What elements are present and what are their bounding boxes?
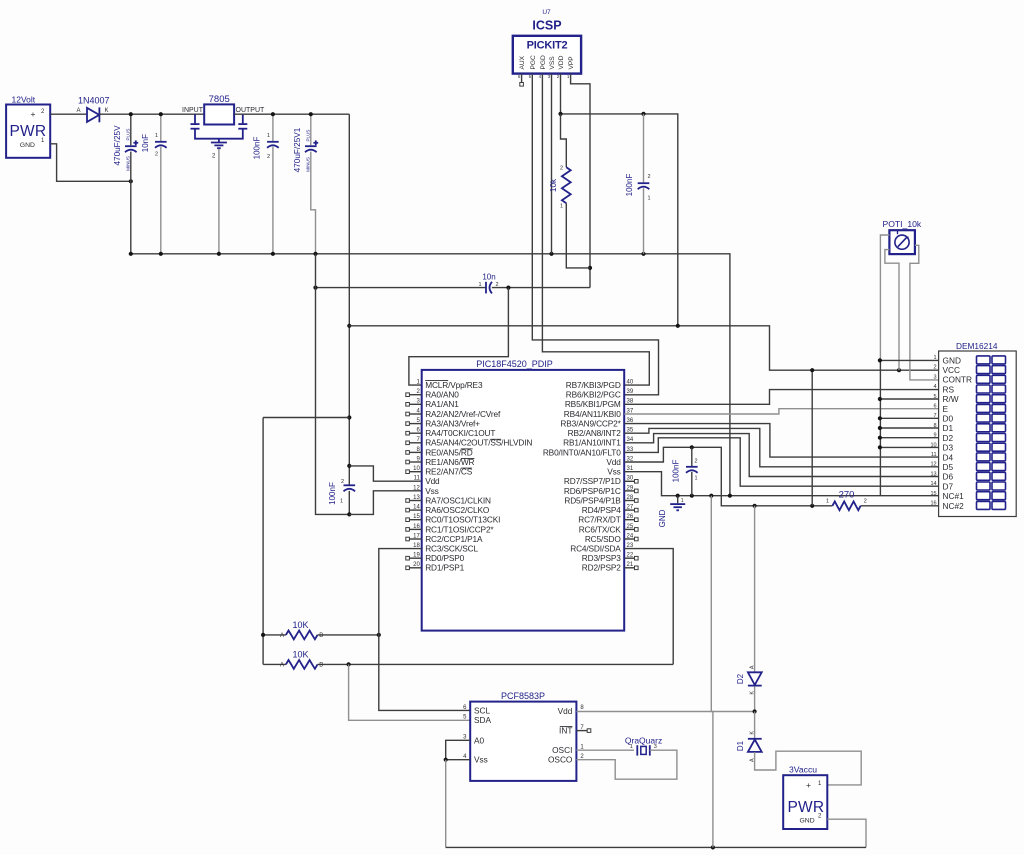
overline WR pin9 (461, 458, 475, 460)
svg-text:A: A (77, 108, 81, 114)
wire LCD D0 stub (880, 417, 939, 419)
svg-text:RD4/PSP4: RD4/PSP4 (582, 505, 621, 515)
svg-text:D2: D2 (943, 433, 954, 443)
PCF INT stub (576, 730, 587, 732)
junction C6 / Vss vertical (313, 286, 317, 290)
overline MCLR (425, 380, 448, 382)
svg-text:100nF: 100nF (625, 174, 634, 197)
svg-text:1: 1 (826, 499, 829, 505)
svg-text:NC#1: NC#1 (943, 491, 965, 501)
svg-text:2: 2 (496, 282, 499, 288)
svg-text:RB5/KBI1/PGM: RB5/KBI1/PGM (565, 399, 621, 409)
svg-text:B: B (319, 662, 323, 668)
wire PCF A0 (446, 740, 471, 759)
svg-text:2: 2 (155, 152, 158, 158)
svg-text:Vss: Vss (474, 755, 488, 765)
ground symbol under 7805 (211, 142, 227, 144)
svg-text:RD1/PSP1: RD1/PSP1 (425, 563, 464, 573)
svg-text:OSCI: OSCI (552, 745, 572, 755)
svg-text:+: + (31, 109, 36, 119)
wire RB5 to LCD RS (624, 390, 938, 405)
svg-text:RS: RS (943, 384, 955, 394)
junction C3 top (271, 112, 275, 116)
wire Vdd branch to pull-ups (263, 417, 349, 419)
resistor R 10K (SCL pull-up) (263, 634, 286, 636)
svg-text:VCC: VCC (943, 365, 961, 375)
svg-text:GND: GND (658, 509, 667, 527)
capacitor C6 10n (485, 282, 487, 294)
wire diode K to 7805 input (99, 113, 204, 115)
wire Vss vertical (316, 254, 350, 515)
svg-text:1: 1 (155, 133, 158, 139)
svg-text:1N4007: 1N4007 (78, 96, 110, 106)
microcontroller U PIC18F4520_PDIP (422, 370, 625, 631)
svg-text:PICKIT2: PICKIT2 (527, 40, 568, 52)
svg-text:RD7/SSP7/P1D: RD7/SSP7/P1D (564, 476, 621, 486)
svg-text:VDD: VDD (558, 55, 565, 69)
svg-text:RC3/SCK/SCL: RC3/SCK/SCL (425, 544, 478, 554)
wire RB4 to LCD E (624, 409, 938, 414)
capacitor C1 470uF/25V (130, 114, 132, 145)
svg-text:MINUS: MINUS (306, 157, 311, 172)
resistor R 10k pull-up (561, 114, 567, 167)
wire Vdd to PIC pin11 (349, 466, 421, 481)
junction C5 gnd (641, 252, 645, 256)
wire SCL from PIC pin18 (379, 549, 470, 711)
junction ICSP VSS (549, 252, 553, 256)
junction C4 top (309, 112, 313, 116)
svg-text:PGC: PGC (530, 55, 537, 70)
junction SDA drop (347, 662, 351, 666)
svg-text:SDA: SDA (474, 715, 492, 725)
svg-text:1: 1 (478, 282, 481, 288)
ICSP pin 6 AUX stub (521, 74, 523, 83)
wire LCD GND stub (880, 359, 939, 361)
svg-text:RB1/AN10/INT1: RB1/AN10/INT1 (563, 438, 621, 448)
wire ICSP VSS to ground rail (551, 74, 553, 254)
overline CS pin10 (461, 467, 472, 469)
svg-text:SCL: SCL (474, 705, 491, 715)
svg-text:270: 270 (839, 490, 855, 501)
svg-text:10n: 10n (482, 273, 495, 282)
svg-text:2: 2 (695, 459, 698, 465)
svg-text:GND: GND (800, 818, 815, 825)
svg-text:RA0/AN0: RA0/AN0 (425, 390, 459, 400)
svg-text:12Volt: 12Volt (12, 95, 36, 105)
svg-text:Vss: Vss (425, 486, 438, 496)
svg-text:1: 1 (695, 476, 698, 482)
svg-text:D1: D1 (736, 740, 745, 751)
svg-text:100nF: 100nF (672, 460, 681, 483)
svg-text:RA1/AN1: RA1/AN1 (425, 399, 459, 409)
svg-text:RB0/INT0/AN10/FLT0: RB0/INT0/AN10/FLT0 (543, 447, 621, 457)
svg-text:13: 13 (930, 471, 936, 477)
junction C2 top (159, 112, 163, 116)
capacitor C7 100nF at PIC (344, 484, 356, 486)
wire LCD R/W stub (880, 398, 939, 400)
power connector PWR 12Volt (6, 105, 50, 158)
svg-text:1: 1 (630, 744, 633, 750)
wire Vdd vertical (348, 114, 350, 484)
wire +5V to PIC area (561, 114, 678, 326)
svg-text:PIC18F4520_PDIP: PIC18F4520_PDIP (476, 359, 553, 369)
wire PCF Vdd (576, 711, 754, 713)
svg-text:10K: 10K (292, 650, 308, 660)
svg-text:RD6/PSP6/P1C: RD6/PSP6/P1C (564, 486, 621, 496)
svg-text:4: 4 (934, 384, 937, 390)
svg-text:INPUT: INPUT (182, 107, 204, 114)
svg-text:CONTR: CONTR (943, 375, 973, 385)
svg-text:DEM16214: DEM16214 (956, 341, 998, 351)
ground rail (131, 254, 730, 496)
svg-text:RA3/AN3/Vref+: RA3/AN3/Vref+ (425, 419, 480, 429)
svg-text:Vdd: Vdd (606, 457, 621, 467)
diode D1 (754, 712, 756, 739)
wire ICSP PGD (542, 74, 649, 386)
capacitor C8 100nF right of PIC (691, 447, 693, 466)
wire PIC Vdd pin32 (624, 447, 832, 506)
wire pot pin3 to LCD CONTR (910, 245, 939, 380)
svg-text:A: A (280, 633, 284, 639)
capacitor C5 100nF (643, 114, 645, 182)
wire battery GND to bottom rail (827, 819, 866, 847)
svg-text:15: 15 (930, 491, 936, 497)
7805 output pin bracket (242, 114, 244, 123)
svg-text:U7: U7 (542, 9, 551, 16)
svg-text:RA2/AN2/Vref-/CVref: RA2/AN2/Vref-/CVref (425, 409, 501, 419)
junction C1 top (129, 112, 133, 116)
wire pot wiper to LCD VCC (885, 250, 899, 371)
wire A0/Vss to bottom rail (445, 760, 447, 848)
svg-text:16: 16 (930, 501, 936, 507)
svg-text:1: 1 (267, 133, 270, 139)
capacitor C4 470uF/25V1 (310, 114, 312, 145)
svg-text:2: 2 (267, 154, 270, 160)
svg-text:470uF/25V1: 470uF/25V1 (293, 127, 302, 172)
svg-text:RD2/PSP2: RD2/PSP2 (582, 563, 621, 573)
svg-text:GND: GND (943, 355, 961, 365)
wire MCLR net (316, 287, 487, 289)
overline RD pin8 (461, 448, 473, 450)
wire Vss to PIC pin12 (349, 491, 421, 515)
bottom ground rail (446, 846, 866, 848)
svg-text:RD5/PSP4/P1B: RD5/PSP4/P1B (564, 495, 621, 505)
svg-text:D6: D6 (943, 472, 954, 482)
wire LCD gnd chain (879, 360, 881, 495)
wire VCC link vertical (811, 370, 813, 506)
svg-text:3: 3 (934, 374, 937, 380)
svg-text:D0: D0 (943, 414, 954, 424)
svg-text:RC4/SDI/SDA: RC4/SDI/SDA (570, 544, 621, 554)
svg-text:3: 3 (654, 744, 657, 750)
svg-text:+: + (806, 780, 811, 790)
svg-text:PCF8583P: PCF8583P (501, 691, 545, 701)
wire +5V output rail (234, 113, 349, 115)
7805 gnd pin path (191, 128, 200, 130)
svg-text:RD0/PSP0: RD0/PSP0 (425, 553, 464, 563)
svg-text:2: 2 (864, 499, 867, 505)
svg-text:A: A (280, 662, 284, 668)
wire RB0 to LCD D7 (624, 438, 938, 486)
svg-text:RB7/KBI3/PGD: RB7/KBI3/PGD (566, 380, 621, 390)
svg-text:1: 1 (648, 196, 651, 202)
svg-text:11: 11 (414, 476, 421, 482)
svg-text:D2: D2 (736, 673, 745, 684)
wire RB1 to LCD D6 (624, 434, 938, 477)
wire 7805 gnd down (218, 149, 220, 254)
resistor R 270 (832, 501, 860, 510)
svg-text:RC5/SDO: RC5/SDO (585, 534, 622, 544)
svg-text:PLUS: PLUS (126, 128, 131, 140)
svg-text:B: B (319, 633, 323, 639)
svg-text:RC6/TX/CK: RC6/TX/CK (579, 524, 622, 534)
svg-text:K: K (105, 108, 109, 114)
wire RB3 to LCD D4 (624, 424, 938, 458)
svg-text:GND: GND (20, 142, 35, 149)
7805 input pin bracket (194, 114, 196, 123)
junction VPP / R 10k (588, 266, 592, 270)
svg-text:10nF: 10nF (141, 134, 150, 152)
svg-text:3Vaccu: 3Vaccu (789, 764, 817, 774)
svg-text:MCLR/Vpp/RE3: MCLR/Vpp/RE3 (425, 380, 483, 390)
svg-text:2: 2 (648, 174, 651, 180)
svg-text:12: 12 (413, 485, 420, 491)
svg-text:2: 2 (934, 365, 937, 371)
svg-text:1: 1 (340, 499, 343, 505)
overline SS pin7 (490, 438, 501, 440)
junction PCF Vdd / diodes (753, 709, 757, 713)
svg-text:A: A (750, 665, 756, 669)
svg-text:D4: D4 (943, 452, 954, 462)
resistor R 10K (SDA pull-up) (263, 663, 286, 665)
svg-text:D1: D1 (943, 423, 954, 433)
svg-text:11: 11 (931, 452, 937, 458)
svg-text:POTI_10k: POTI_10k (883, 219, 922, 229)
svg-text:RB6/KBI2/PGC: RB6/KBI2/PGC (566, 390, 621, 400)
svg-text:1: 1 (560, 204, 563, 210)
svg-text:D7: D7 (943, 481, 954, 491)
svg-text:RC1/T1OSI/CCP2*: RC1/T1OSI/CCP2* (425, 524, 494, 534)
svg-text:INT: INT (559, 726, 572, 736)
svg-text:RB3/AN9/CCP2*: RB3/AN9/CCP2* (560, 419, 621, 429)
junction MCLR drop (506, 286, 510, 290)
wire ground vertical mid (710, 496, 712, 712)
svg-text:100nF: 100nF (328, 482, 337, 505)
svg-text:RC2/CCP1/P1A: RC2/CCP1/P1A (425, 534, 483, 544)
junction GND pin / C1 (129, 179, 133, 183)
svg-text:RA7/OSC1/CLKIN: RA7/OSC1/CLKIN (425, 495, 491, 505)
svg-text:OUTPUT: OUTPUT (236, 107, 266, 114)
wire LCD D2 stub (880, 437, 939, 439)
wire SDA from PIC pin23 (624, 549, 673, 665)
svg-text:OSCO: OSCO (548, 755, 573, 765)
ground symbol GND at PIC (677, 496, 679, 504)
svg-text:MINUS: MINUS (126, 156, 131, 171)
wire Vdd distribution to LCD VCC (349, 326, 938, 370)
svg-text:12: 12 (930, 462, 936, 468)
LCD pixel cells (977, 356, 991, 364)
svg-text:40: 40 (627, 380, 634, 386)
svg-text:Vss: Vss (607, 467, 620, 477)
svg-text:PGD: PGD (540, 55, 547, 70)
wire LCD D1 stub (880, 427, 939, 429)
regulator U 7805 (204, 104, 234, 124)
wire ICSP VPP (571, 74, 590, 288)
svg-text:AUX: AUX (519, 55, 526, 69)
wire ICSP PGC (532, 74, 658, 395)
wire D1 anode to battery + (755, 751, 862, 785)
svg-text:470uF/25V: 470uF/25V (113, 125, 122, 166)
svg-text:14: 14 (930, 481, 936, 487)
svg-text:2: 2 (560, 166, 563, 172)
svg-text:R/W: R/W (943, 394, 959, 404)
svg-text:RB4/AN11/KBI0: RB4/AN11/KBI0 (564, 409, 621, 419)
svg-text:RB2/AN8/INT2: RB2/AN8/INT2 (568, 428, 622, 438)
svg-text:VPP: VPP (568, 56, 575, 70)
svg-text:10k: 10k (549, 178, 558, 192)
svg-text:7805: 7805 (209, 94, 230, 105)
wire PIC Vss pin31 to gnd line (624, 472, 938, 496)
svg-text:RA4/T0CKI/C1OUT: RA4/T0CKI/C1OUT (425, 428, 495, 438)
wire SDA drop to PCF (349, 664, 471, 720)
svg-text:A0: A0 (474, 735, 485, 745)
svg-text:ICSP: ICSP (532, 19, 561, 33)
svg-text:RA6/OSC2/CLKO: RA6/OSC2/CLKO (425, 505, 490, 515)
svg-text:1: 1 (681, 498, 684, 504)
svg-text:D3: D3 (943, 443, 954, 453)
svg-text:Vdd: Vdd (558, 706, 573, 716)
wire LCD D3 stub (880, 446, 939, 448)
svg-text:PLUS: PLUS (306, 129, 311, 141)
wire PCF Vss (446, 759, 471, 761)
svg-text:6: 6 (934, 404, 937, 410)
svg-text:NC#2: NC#2 (943, 501, 965, 511)
wire +5V to D2 (754, 506, 756, 672)
wire PWR GND down (50, 144, 131, 182)
svg-text:2: 2 (341, 479, 344, 485)
svg-text:RA5/AN4/C2OUT/SS/HLVDIN: RA5/AN4/C2OUT/SS/HLVDIN (425, 438, 532, 448)
capacitor C2 10nF (160, 114, 162, 141)
svg-text:K: K (750, 731, 756, 735)
wire pot pin1 to LCD GND (880, 235, 889, 360)
wire 12V + rail (50, 113, 87, 115)
svg-text:VSS: VSS (549, 56, 556, 70)
svg-text:E: E (943, 404, 949, 414)
svg-text:39: 39 (627, 389, 634, 395)
svg-text:RD3/PSP3: RD3/PSP3 (582, 553, 621, 563)
svg-text:Vdd: Vdd (425, 476, 440, 486)
wire RB2 to LCD D5 (624, 428, 938, 466)
svg-text:RC0/T1OSO/T13CKI: RC0/T1OSO/T13CKI (425, 515, 500, 525)
wire crystal loop to OSCO (576, 750, 677, 779)
wire ICSP VDD (560, 74, 562, 114)
svg-text:10K: 10K (292, 620, 308, 630)
RTC U PCF8583P (470, 702, 576, 781)
capacitor C3 100nF (272, 114, 274, 141)
svg-text:100nF: 100nF (253, 137, 262, 160)
svg-text:D5: D5 (943, 462, 954, 472)
svg-text:RC7/RX/DT: RC7/RX/DT (578, 515, 621, 525)
wire MCLR to PIC pin1 (409, 288, 509, 386)
